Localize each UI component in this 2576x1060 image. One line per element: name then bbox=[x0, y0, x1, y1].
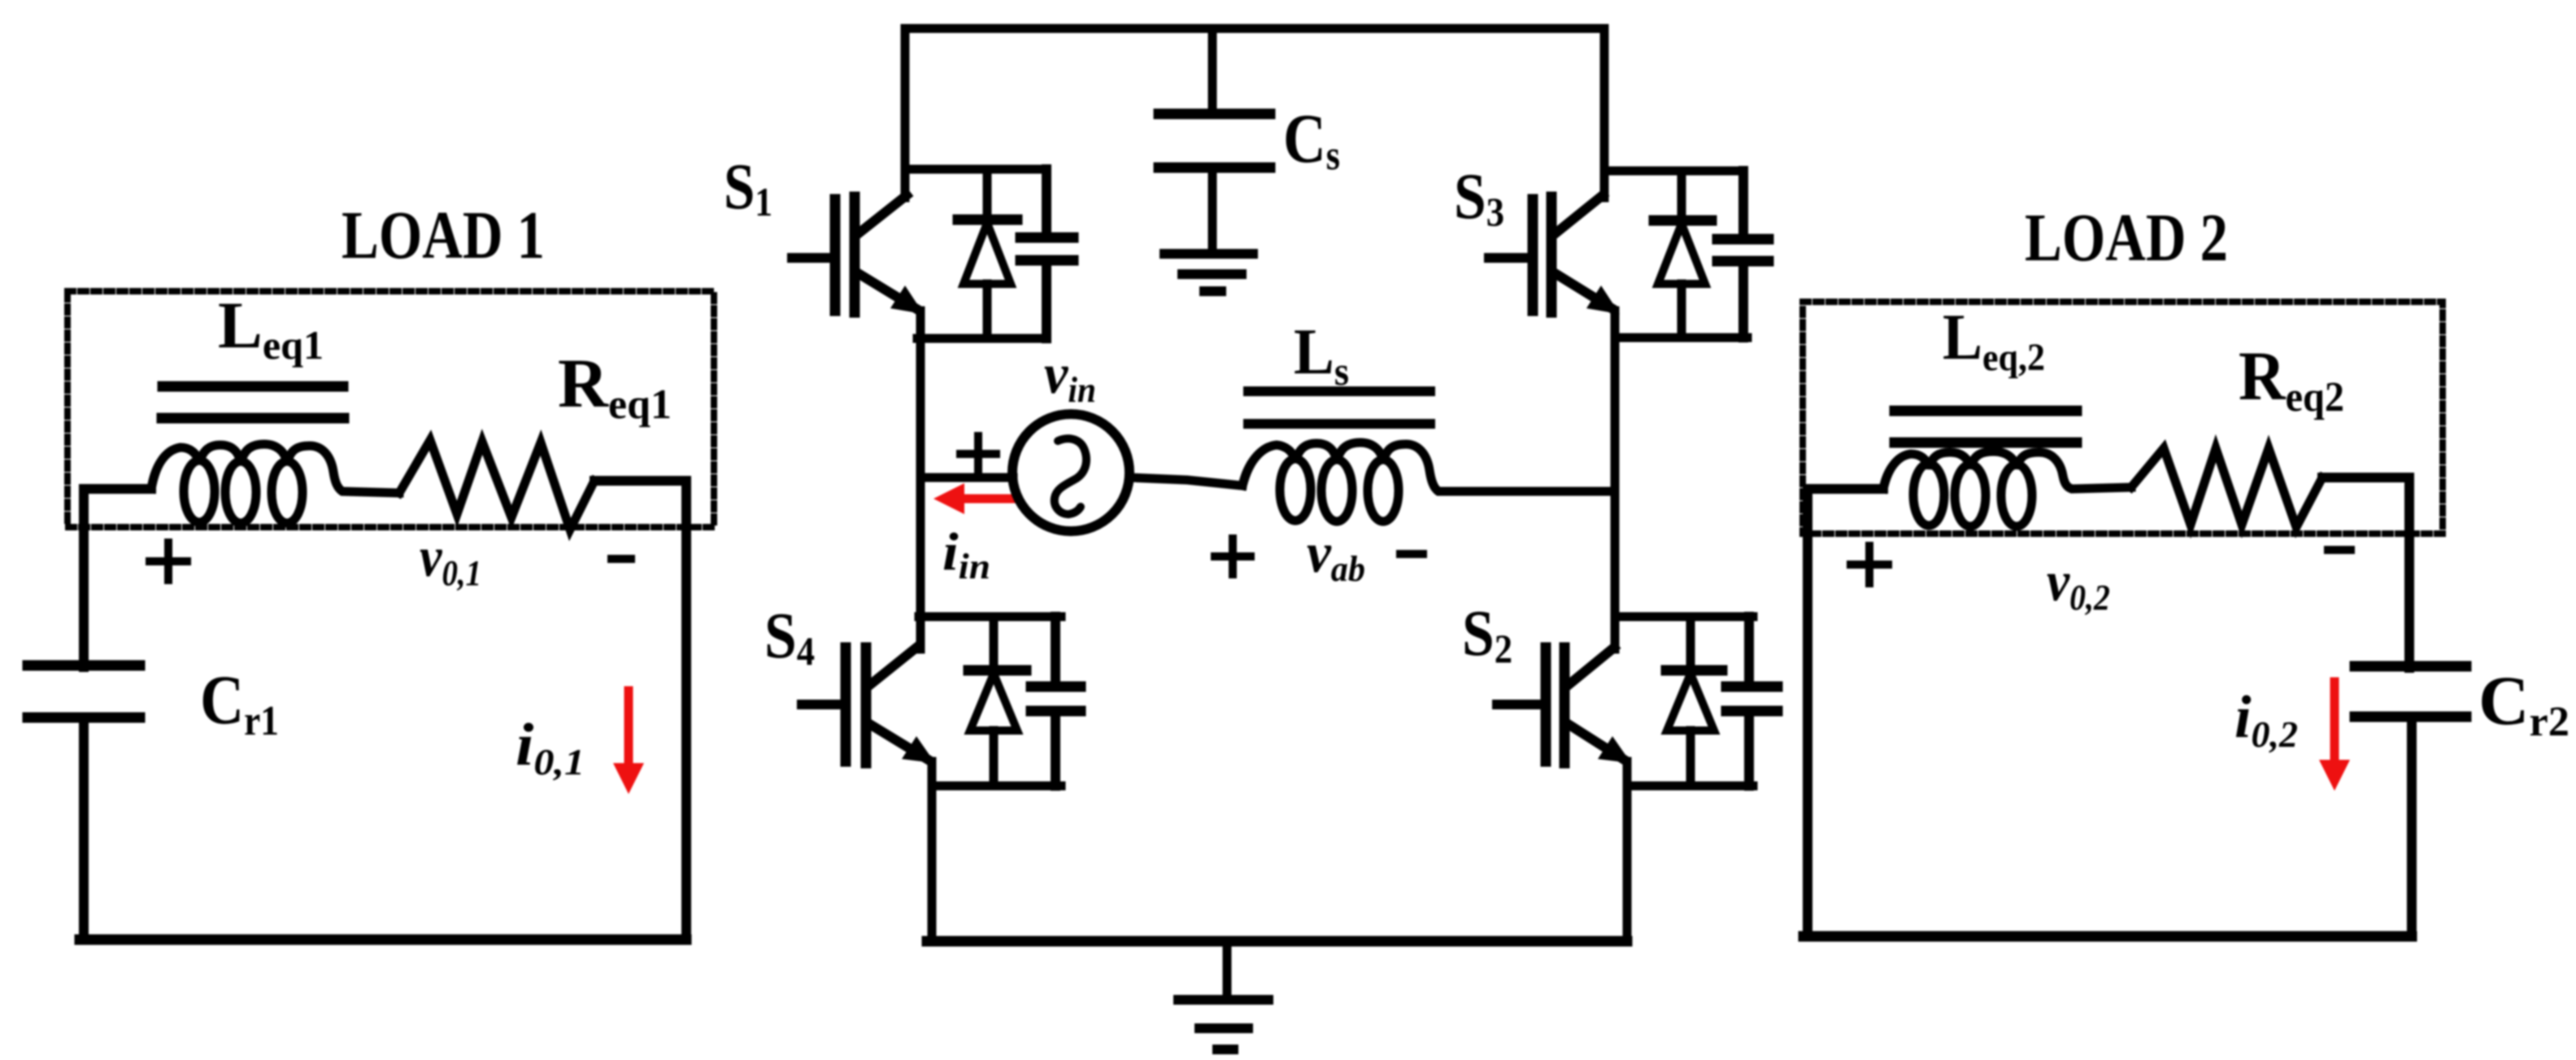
wire bottom rail bbox=[927, 936, 1627, 947]
svg-text:LOAD 1: LOAD 1 bbox=[342, 198, 545, 273]
svg-text:iin: iin bbox=[942, 522, 990, 587]
wire S4 emitter to bottom rail bbox=[928, 761, 937, 941]
wire S1 cell top bbox=[905, 165, 1046, 174]
svg-text:v0,2: v0,2 bbox=[2047, 551, 2110, 617]
svg-text:S1: S1 bbox=[724, 151, 772, 225]
diode D4 bbox=[968, 617, 1026, 786]
svg-text:vab: vab bbox=[1307, 522, 1365, 589]
capacitor snubber C1 bbox=[1020, 169, 1073, 338]
wire load1 bottom rail bbox=[80, 935, 686, 945]
wire load2 bottom rail bbox=[1804, 931, 2412, 942]
svg-text:v0,1: v0,1 bbox=[420, 526, 481, 593]
svg-text:LOAD 2: LOAD 2 bbox=[2025, 200, 2228, 276]
ground (bottom) bbox=[1178, 1000, 1268, 1049]
diode D1 bbox=[958, 169, 1017, 338]
transistor S4 (IGBT) bbox=[802, 648, 935, 763]
wire resistor to right corner bbox=[594, 476, 686, 486]
wire S1 cell bottom bbox=[917, 334, 1046, 343]
transistor S2 (IGBT) bbox=[1497, 648, 1631, 763]
inductor Leq2 core bars bbox=[1895, 411, 2077, 443]
inductor Leq1 coil bbox=[151, 444, 399, 523]
source vin waveform glyph bbox=[1055, 438, 1086, 514]
svg-text:vin: vin bbox=[1044, 343, 1096, 410]
LOAD 1 dotted boundary box bbox=[67, 291, 714, 527]
svg-text:i0,1: i0,1 bbox=[516, 712, 585, 783]
wire node b vertical (S3 emitter to S2 collector) bbox=[1611, 311, 1620, 649]
capacitor Cr2 bbox=[2355, 666, 2466, 717]
diode D3 bbox=[1654, 171, 1712, 338]
wire load2 left vertical bbox=[1808, 489, 1883, 936]
capacitor Cs upper stem bbox=[1208, 28, 1217, 114]
capacitor Cr1 bbox=[28, 665, 140, 718]
capacitor snubber C4 bbox=[1031, 617, 1081, 786]
svg-text:Req2: Req2 bbox=[2239, 337, 2344, 421]
svg-text:S3: S3 bbox=[1454, 161, 1504, 234]
minus sign v01 bbox=[611, 555, 631, 563]
wire resistor to Cr2 corner bbox=[2322, 478, 2409, 668]
current arrow iin (red) bbox=[933, 483, 1012, 514]
wire mid left bbox=[920, 473, 1013, 482]
source vin circle bbox=[1012, 414, 1129, 531]
capacitor snubber C3 bbox=[1717, 171, 1769, 338]
svg-text:Cr2: Cr2 bbox=[2478, 661, 2569, 745]
inductor Ls core bars bbox=[1248, 391, 1430, 424]
current arrow i01 (red) bbox=[613, 691, 644, 794]
resistor Req2 bbox=[2131, 448, 2322, 527]
inductor Leq1 core bars bbox=[162, 386, 344, 418]
plus sign v01 bbox=[150, 543, 187, 580]
inductor Ls coil bbox=[1242, 443, 1615, 521]
svg-text:S2: S2 bbox=[1462, 598, 1512, 671]
wire S2 cell top bbox=[1615, 613, 1753, 622]
LOAD 2 dotted boundary box bbox=[1803, 302, 2443, 534]
wire mid right of source bbox=[1129, 478, 1242, 486]
inductor Leq2 coil bbox=[1883, 451, 2131, 526]
svg-text:Cs: Cs bbox=[1283, 99, 1340, 179]
wire load1 top-left corner bbox=[84, 489, 151, 667]
wire load1 right vertical bbox=[681, 481, 691, 940]
minus sign vab bbox=[1400, 550, 1423, 558]
diode D2 bbox=[1666, 617, 1722, 786]
capacitor Cs bbox=[1159, 114, 1270, 168]
plus sign v02 bbox=[1851, 546, 1888, 583]
wire top rail bbox=[905, 28, 1604, 198]
resistor Req1 bbox=[399, 440, 594, 530]
plus sign vin bbox=[960, 436, 996, 472]
wire S3 cell top bbox=[1604, 167, 1743, 176]
minus sign v02 bbox=[2328, 546, 2351, 554]
wire node a vertical (S1 emitter to S4 collector) bbox=[916, 311, 925, 649]
current arrow i02 (red) bbox=[2319, 682, 2350, 791]
capacitor snubber C2 bbox=[1726, 617, 1778, 786]
wire Cs lower stem bbox=[1208, 168, 1217, 254]
svg-text:Req1: Req1 bbox=[558, 344, 672, 428]
wire ground stem (bottom) bbox=[1223, 941, 1232, 1000]
svg-text:Cr1: Cr1 bbox=[200, 661, 279, 744]
svg-text:S4: S4 bbox=[764, 600, 815, 674]
wire S3 cell bottom bbox=[1615, 334, 1747, 342]
svg-text:Leq1: Leq1 bbox=[218, 288, 324, 368]
ground (top, Cs) bbox=[1164, 254, 1253, 291]
plus sign vab bbox=[1215, 539, 1251, 574]
wire S2 emitter to bottom rail bbox=[1623, 761, 1632, 941]
wire Cr2 lower to bottom rail bbox=[2407, 717, 2417, 936]
transistor S1 (IGBT) bbox=[792, 195, 924, 314]
wire S4 cell bottom bbox=[932, 782, 1061, 791]
wire S2 cell bottom bbox=[1627, 782, 1753, 791]
wire S4 cell top bbox=[919, 613, 1061, 622]
svg-text:i0,2: i0,2 bbox=[2234, 684, 2298, 755]
transistor S3 (IGBT) bbox=[1489, 195, 1620, 314]
svg-text:Ls: Ls bbox=[1294, 316, 1349, 394]
wire load1 left lower bbox=[79, 718, 89, 940]
svg-text:Leq,2: Leq,2 bbox=[1943, 302, 2045, 379]
